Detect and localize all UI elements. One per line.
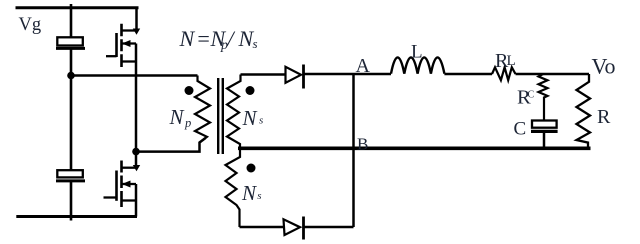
svg-text:N: N: [242, 106, 258, 130]
svg-text:N: N: [241, 181, 257, 205]
svg-text:R: R: [597, 106, 611, 128]
svg-text:N: N: [179, 26, 196, 51]
svg-text:s: s: [253, 36, 258, 51]
svg-text:=: =: [196, 26, 211, 51]
svg-text:L: L: [507, 53, 516, 69]
svg-text:A: A: [356, 55, 371, 77]
svg-text:Vo: Vo: [592, 54, 616, 79]
svg-text:B: B: [357, 135, 368, 154]
svg-text:p: p: [184, 116, 191, 130]
svg-text:C: C: [528, 90, 535, 101]
svg-text:s: s: [259, 115, 263, 127]
svg-text:L: L: [411, 42, 423, 63]
svg-text:C: C: [514, 119, 527, 140]
svg-text:N: N: [169, 105, 185, 129]
svg-text:s: s: [257, 190, 261, 202]
svg-text:Vg: Vg: [19, 15, 42, 35]
